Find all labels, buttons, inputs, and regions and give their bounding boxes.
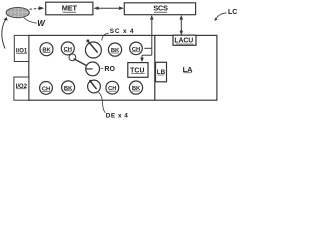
box LB	[156, 62, 167, 82]
SC arm	[89, 42, 98, 53]
svg-text:MET: MET	[62, 4, 78, 13]
developer DE circle	[88, 80, 101, 93]
top row unit BK 2	[108, 43, 121, 56]
box I/O2	[14, 77, 29, 100]
dashed arrow wafer to MET	[30, 7, 40, 10]
spin coater SC circle	[85, 42, 101, 58]
svg-text:LACU: LACU	[174, 38, 193, 45]
box MET	[46, 2, 93, 15]
arrow into wafer (curved, lower-left)	[2, 20, 6, 49]
svg-text:SC x 4: SC x 4	[110, 28, 135, 35]
svg-text:LA: LA	[183, 65, 194, 74]
label DE x 4 with leader	[99, 92, 106, 113]
leader to W label	[24, 17, 37, 23]
box LACU	[173, 35, 196, 45]
arrow SCS to TCU (with jog)	[142, 18, 152, 59]
DE arm dot	[89, 80, 92, 83]
bottom row unit CH 2	[106, 81, 119, 94]
svg-text:LC: LC	[228, 9, 237, 16]
svg-text:DE x 4: DE x 4	[106, 112, 129, 119]
bottom row unit BK	[62, 81, 75, 94]
svg-text:TCU: TCU	[130, 67, 144, 74]
wafer W (hatched ellipse)	[6, 8, 29, 18]
svg-text:SCS: SCS	[153, 4, 168, 13]
bottom row unit BK 2	[129, 81, 142, 94]
box SCS	[124, 3, 195, 15]
RO label	[101, 67, 104, 69]
divider track | LA	[154, 35, 156, 100]
top row unit CH	[61, 42, 74, 55]
SC arm dot	[86, 39, 89, 42]
top row unit BK	[40, 43, 53, 56]
box TCU	[128, 63, 148, 78]
DE arm	[91, 82, 97, 89]
svg-text:RO: RO	[104, 66, 115, 73]
double arrow MET-SCS	[97, 7, 122, 9]
label SC x 4 with leader	[102, 33, 109, 40]
robot RO	[69, 54, 76, 61]
track / lithocell outer box	[29, 35, 217, 100]
double arrow SCS-LACU	[180, 18, 182, 33]
box I/O1	[14, 35, 28, 61]
top row unit CH 2	[130, 42, 143, 55]
bottom row unit CH	[40, 82, 53, 95]
